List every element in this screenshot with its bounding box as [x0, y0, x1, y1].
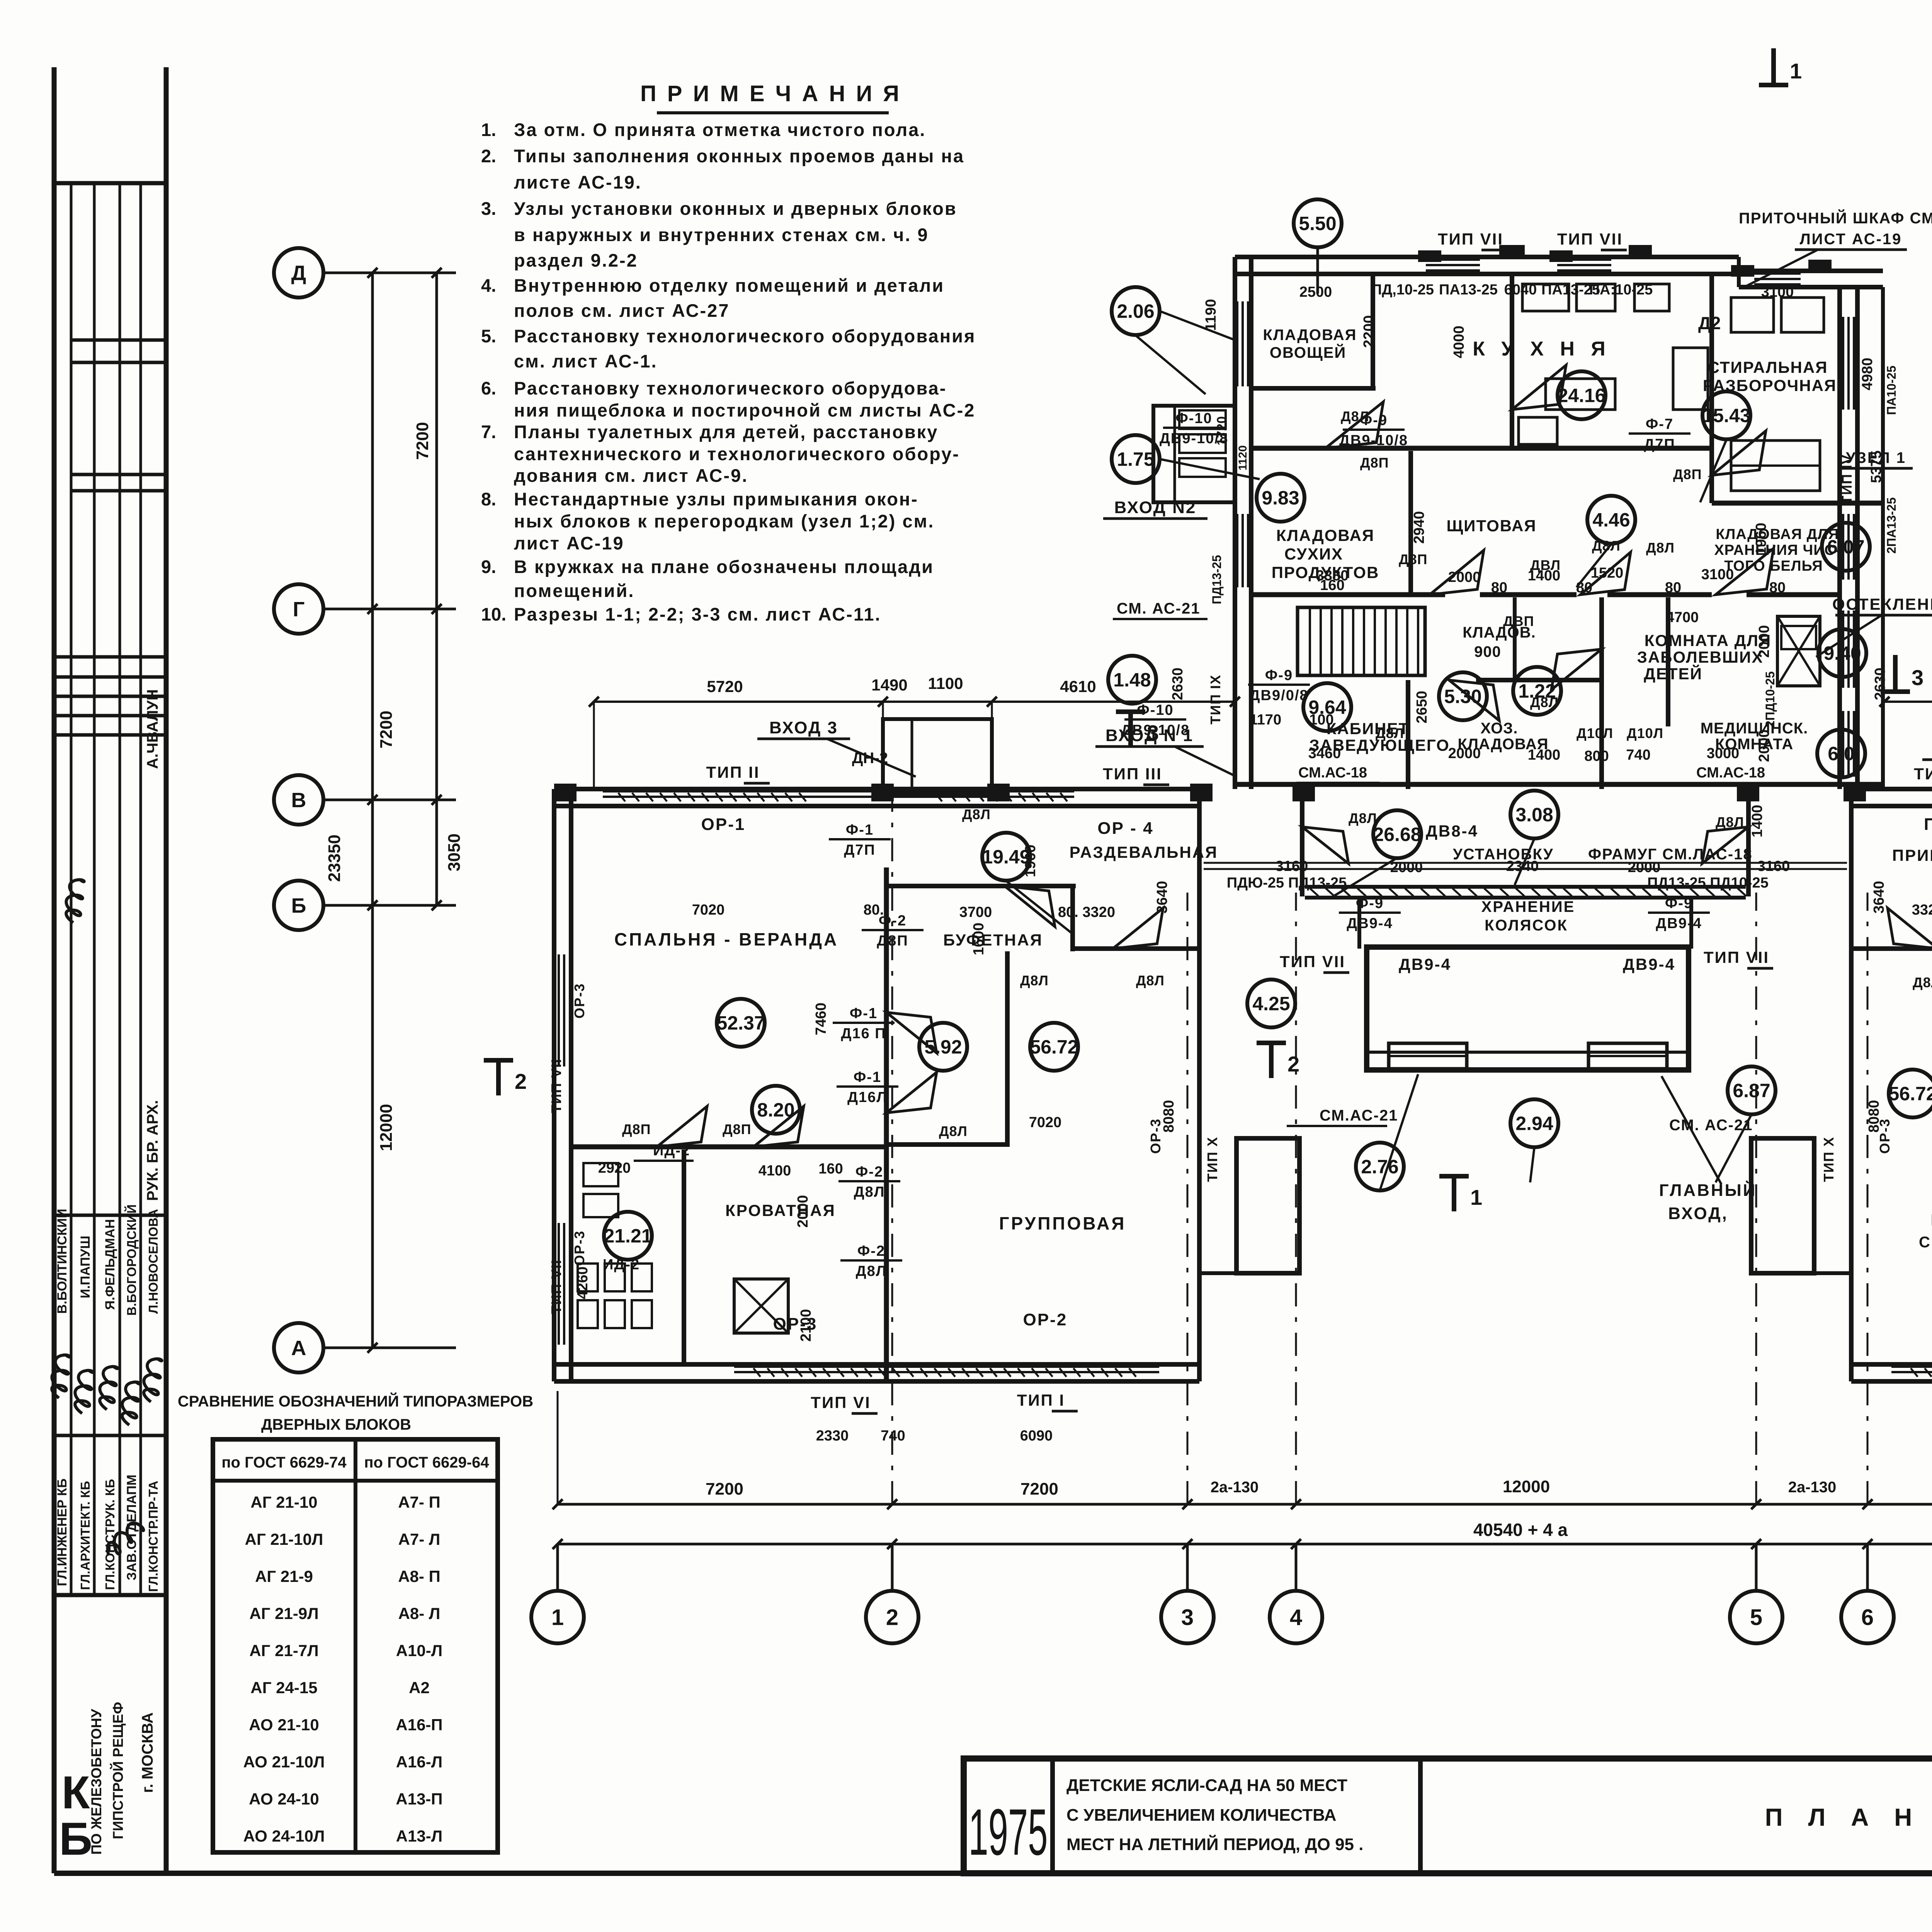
title block: [964, 1759, 1932, 1873]
svg-text:СМ.АС-18: СМ.АС-18: [1696, 765, 1765, 781]
svg-text:Д16Л: Д16Л: [847, 1089, 888, 1105]
svg-text:Д8Л: Д8Л: [1020, 973, 1049, 988]
svg-text:2650: 2650: [1414, 691, 1430, 724]
svg-text:А8- П: А8- П: [398, 1567, 440, 1585]
svg-text:1120: 1120: [1236, 445, 1249, 470]
svg-text:5.30: 5.30: [1444, 686, 1481, 707]
svg-text:1960: 1960: [1753, 523, 1769, 556]
svg-text:ГЛ.ИНЖЕНЕР КБ: ГЛ.ИНЖЕНЕР КБ: [55, 1478, 70, 1586]
stairs: [1298, 607, 1425, 675]
svg-text:3: 3: [1147, 721, 1159, 745]
svg-text:РАЗДЕВАЛЬНАЯ: РАЗДЕВАЛЬНАЯ: [1070, 843, 1218, 861]
svg-text:ДЕТЕЙ: ДЕТЕЙ: [1644, 664, 1702, 683]
svg-text:А16-П: А16-П: [396, 1716, 442, 1734]
svg-text:4980: 4980: [1859, 358, 1876, 391]
svg-text:2630: 2630: [1872, 668, 1888, 701]
svg-text:7.: 7.: [481, 422, 496, 442]
svg-text:4700: 4700: [1666, 609, 1699, 626]
svg-text:4.: 4.: [481, 275, 496, 296]
upper block outer walls: [1235, 255, 1739, 259]
svg-text:Расстановку технологического о: Расстановку технологического оборудова-: [514, 378, 947, 398]
svg-text:ДВ9-4: ДВ9-4: [1347, 915, 1393, 932]
svg-text:А7- Л: А7- Л: [398, 1530, 440, 1548]
svg-text:3: 3: [1912, 665, 1923, 690]
svg-text:С УВЕЛИЧЕНИЕМ КОЛИЧЕСТВА: С УВЕЛИЧЕНИЕМ КОЛИЧЕСТВА: [1066, 1806, 1337, 1825]
svg-text:Д8Л: Д8Л: [962, 806, 991, 822]
svg-text:АГ 21-7Л: АГ 21-7Л: [249, 1641, 318, 1660]
svg-text:4.46: 4.46: [1592, 509, 1630, 531]
svg-text:2500: 2500: [1299, 284, 1332, 300]
svg-text:СМ. АС-21: СМ. АС-21: [1669, 1117, 1753, 1134]
svg-text:Д8П: Д8П: [1673, 466, 1702, 482]
svg-text:ТИП VII: ТИП VII: [1280, 952, 1345, 971]
main porch: [1367, 947, 1689, 1070]
svg-text:ОР-2: ОР-2: [1023, 1310, 1068, 1329]
svg-text:Д8П: Д8П: [723, 1121, 752, 1137]
svg-text:А8- Л: А8- Л: [398, 1604, 440, 1622]
svg-text:10.: 10.: [481, 604, 506, 624]
svg-text:ТИП III: ТИП III: [1914, 765, 1932, 783]
svg-text:2000: 2000: [795, 1195, 811, 1228]
svg-text:3320: 3320: [1912, 902, 1932, 918]
wing sanitary screens: [583, 1163, 618, 1186]
svg-text:2.06: 2.06: [1117, 301, 1154, 322]
svg-text:2000: 2000: [1628, 859, 1661, 876]
svg-text:1: 1: [1790, 59, 1802, 83]
svg-text:2330: 2330: [816, 1428, 849, 1444]
svg-text:К У Х Н Я: К У Х Н Я: [1473, 338, 1611, 360]
svg-text:ВХОД,: ВХОД,: [1668, 1204, 1728, 1223]
svg-text:А.ЧВАЛУН: А.ЧВАЛУН: [144, 689, 161, 769]
svg-text:П Р И М Е Ч А Н И Я: П Р И М Е Ч А Н И Я: [640, 81, 901, 106]
svg-text:2.94: 2.94: [1515, 1113, 1553, 1134]
svg-text:А16-Л: А16-Л: [396, 1753, 443, 1771]
svg-text:80: 80: [1665, 580, 1681, 596]
svg-text:АГ 24-15: АГ 24-15: [250, 1679, 317, 1697]
svg-text:7200: 7200: [706, 1480, 743, 1498]
svg-text:Расстановку технологического о: Расстановку технологического оборудовани…: [514, 326, 976, 346]
svg-text:СРАВНЕНИЕ ОБОЗНАЧЕНИЙ ТИПОРАЗМ: СРАВНЕНИЕ ОБОЗНАЧЕНИЙ ТИПОРАЗМЕРОВ: [178, 1392, 533, 1410]
svg-text:см. лист АС-1.: см. лист АС-1.: [514, 351, 658, 371]
svg-text:2000: 2000: [1756, 730, 1772, 762]
svg-text:1: 1: [1470, 1185, 1482, 1209]
svg-text:Д7П: Д7П: [844, 842, 876, 858]
svg-text:7020: 7020: [1029, 1114, 1062, 1131]
svg-text:Б: Б: [59, 1813, 92, 1865]
svg-text:1720: 1720: [1214, 416, 1229, 446]
entry leaders: [827, 739, 916, 777]
svg-text:4260: 4260: [575, 1267, 591, 1299]
central entrance walls: [1300, 789, 1304, 896]
svg-text:ДЕТСКИЕ ЯСЛИ-САД НА 50 МЕСТ: ДЕТСКИЕ ЯСЛИ-САД НА 50 МЕСТ: [1066, 1776, 1347, 1795]
svg-text:Ф-10: Ф-10: [1175, 410, 1212, 427]
svg-text:ТИП VI: ТИП VI: [811, 1393, 871, 1412]
svg-text:2.76: 2.76: [1361, 1156, 1398, 1178]
wall junction blobs: [871, 784, 894, 801]
cribs: [734, 1279, 788, 1333]
svg-text:Д8Л: Д8Л: [856, 1263, 887, 1279]
svg-text:1400: 1400: [1749, 805, 1765, 838]
svg-text:7200: 7200: [1020, 1480, 1058, 1498]
svg-text:ния пищеблока и постирочной см: ния пищеблока и постирочной см листы АС-…: [514, 400, 975, 420]
svg-text:ДВЕРНЫХ БЛОКОВ: ДВЕРНЫХ БЛОКОВ: [261, 1416, 411, 1433]
svg-text:Л.НОВОСЕЛОВА: Л.НОВОСЕЛОВА: [146, 1209, 160, 1314]
svg-text:2000: 2000: [1390, 859, 1423, 876]
svg-text:РУК. БР. АРХ.: РУК. БР. АРХ.: [144, 1100, 161, 1201]
svg-text:80: 80: [1769, 580, 1786, 596]
bottom dimension chain: [558, 1503, 1932, 1506]
upper block top windows: [1426, 259, 1480, 261]
svg-text:12000: 12000: [377, 1104, 396, 1151]
svg-text:ПРИЕМНАЯ: ПРИЕМНАЯ: [1892, 846, 1932, 864]
svg-text:2: 2: [1287, 1052, 1299, 1076]
svg-text:160: 160: [1320, 577, 1344, 594]
svg-text:7200: 7200: [413, 422, 432, 460]
svg-text:740: 740: [1626, 747, 1650, 763]
svg-text:3000: 3000: [1707, 745, 1740, 762]
svg-text:1400: 1400: [1528, 568, 1561, 584]
svg-text:4100: 4100: [759, 1163, 791, 1179]
dim line row Д: [594, 701, 1235, 703]
svg-text:1190: 1190: [1203, 299, 1219, 331]
svg-text:ДВ9-4: ДВ9-4: [1399, 955, 1451, 973]
svg-text:Д10Л: Д10Л: [1627, 725, 1663, 741]
svg-text:СМ.АС-21: СМ.АС-21: [1320, 1107, 1398, 1124]
svg-text:ТИП VII: ТИП VII: [548, 1058, 564, 1113]
svg-text:ТИП X: ТИП X: [1204, 1136, 1220, 1182]
svg-text:1170: 1170: [1250, 712, 1281, 728]
svg-text:23350: 23350: [325, 835, 344, 882]
svg-text:А2: А2: [409, 1679, 430, 1697]
svg-text:листе АС-19.: листе АС-19.: [514, 172, 642, 192]
svg-text:Д8П: Д8П: [622, 1121, 651, 1137]
svg-text:ДВ8-4: ДВ8-4: [1426, 822, 1478, 840]
upper block internal walls: [1251, 446, 1712, 451]
svg-text:6.87: 6.87: [1733, 1080, 1770, 1102]
svg-text:8.: 8.: [481, 489, 496, 509]
svg-text:ИД-2: ИД-2: [603, 1257, 640, 1273]
side tambours: [1236, 1138, 1299, 1273]
svg-text:Планы туалетных для детей, рас: Планы туалетных для детей, расстановку: [514, 422, 938, 442]
svg-text:1490: 1490: [871, 676, 907, 694]
svg-text:Д16 П: Д16 П: [841, 1026, 886, 1042]
svg-text:АГ 21-10Л: АГ 21-10Л: [245, 1530, 323, 1548]
svg-text:ХРАНЕНИЯ ЧИС-: ХРАНЕНИЯ ЧИС-: [1714, 542, 1840, 558]
svg-text:Я.ФЕЛЬДМАН: Я.ФЕЛЬДМАН: [103, 1219, 117, 1310]
row axis circles: [274, 248, 323, 298]
svg-text:СПАЛЬНЯ - ВЕРАНДА: СПАЛЬНЯ - ВЕРАНДА: [614, 929, 839, 949]
svg-text:ТИП IX: ТИП IX: [1207, 674, 1223, 724]
svg-text:полов см. лист АС-27: полов см. лист АС-27: [514, 300, 730, 321]
svg-text:Б: Б: [291, 894, 306, 917]
svg-text:ДВП: ДВП: [1503, 613, 1534, 629]
svg-text:Внутреннюю отделку помещений и: Внутреннюю отделку помещений и детали: [514, 275, 944, 296]
svg-text:3050: 3050: [445, 833, 464, 871]
laundry equipment: [1731, 298, 1774, 332]
svg-text:ТИП III: ТИП III: [1103, 765, 1162, 783]
svg-text:Д8Л: Д8Л: [1913, 975, 1932, 990]
svg-text:2000: 2000: [1448, 745, 1481, 762]
svg-text:ПР-4: ПР-4: [1924, 815, 1932, 834]
svg-text:ТОГО БЕЛЬЯ: ТОГО БЕЛЬЯ: [1724, 558, 1823, 574]
svg-text:ВХОД 3: ВХОД 3: [769, 718, 838, 737]
svg-text:ПД,10-25: ПД,10-25: [1371, 282, 1434, 298]
svg-text:8080: 8080: [1866, 1100, 1882, 1133]
svg-text:ПДЮ-25 ПД13-25: ПДЮ-25 ПД13-25: [1227, 875, 1347, 891]
svg-text:7200: 7200: [377, 711, 396, 748]
svg-text:ТИП VII: ТИП VII: [1438, 230, 1503, 248]
svg-text:Разрезы 1-1; 2-2; 3-3 см. лист: Разрезы 1-1; 2-2; 3-3 см. лист АС-11.: [514, 604, 881, 624]
svg-text:Ф-1: Ф-1: [854, 1069, 881, 1085]
svg-text:СТИРАЛЬНАЯ: СТИРАЛЬНАЯ: [1708, 358, 1828, 376]
svg-text:Д8П: Д8П: [1399, 551, 1428, 567]
upper block bottom wall: [1235, 782, 1883, 787]
left wing walls: [554, 787, 1199, 791]
svg-text:26.68: 26.68: [1373, 824, 1421, 845]
svg-text:9.: 9.: [481, 556, 496, 577]
svg-text:ХОЗ.: ХОЗ.: [1481, 720, 1518, 737]
svg-text:ОР-3: ОР-3: [571, 983, 587, 1019]
svg-text:ЛИСТ АС-19: ЛИСТ АС-19: [1800, 231, 1902, 248]
svg-text:А10-Л: А10-Л: [396, 1641, 443, 1660]
svg-text:ТИП II: ТИП II: [706, 763, 760, 781]
entry porch ВХОД 3: [883, 719, 992, 794]
svg-text:Д8П: Д8П: [1360, 455, 1389, 471]
svg-text:Д8Л: Д8Л: [854, 1184, 885, 1200]
column axis circles: [531, 1591, 584, 1643]
svg-text:Д2: Д2: [1698, 313, 1721, 333]
svg-text:3160: 3160: [1757, 858, 1790, 874]
svg-text:ВХОД N2: ВХОД N2: [1114, 498, 1197, 517]
svg-text:ЩИТОВАЯ: ЩИТОВАЯ: [1446, 517, 1536, 535]
svg-text:ПА10-25: ПА10-25: [1884, 366, 1898, 415]
svg-text:ОР-1: ОР-1: [701, 815, 746, 834]
entrance N2 shelving: [1179, 410, 1226, 429]
svg-text:В кружках на плане обозначены: В кружках на плане обозначены площади: [514, 556, 934, 577]
svg-text:ТИП I: ТИП I: [1017, 1391, 1065, 1409]
svg-text:6.0: 6.0: [1828, 743, 1855, 765]
svg-text:4: 4: [1290, 1605, 1302, 1630]
svg-text:ОР - 4: ОР - 4: [1097, 819, 1153, 838]
svg-text:Ф-1: Ф-1: [850, 1005, 878, 1022]
svg-text:КЛАДОВАЯ: КЛАДОВАЯ: [1276, 526, 1374, 544]
svg-text:А13-П: А13-П: [396, 1790, 442, 1808]
svg-text:2ПА13-25: 2ПА13-25: [1884, 497, 1898, 554]
svg-text:ных блоков к перегородкам (узе: ных блоков к перегородкам (узел 1;2) см.: [514, 511, 934, 531]
svg-text:Д8Л: Д8Л: [1646, 540, 1675, 556]
svg-text:1975: 1975: [969, 1796, 1048, 1869]
entrance porch ВХОД N2: [1153, 406, 1235, 502]
svg-text:А13-Л: А13-Л: [396, 1827, 443, 1845]
svg-text:2940: 2940: [1411, 511, 1427, 544]
svg-text:ТИП IV: ТИП IV: [1839, 454, 1855, 504]
svg-text:5720: 5720: [707, 677, 743, 696]
svg-text:21.21: 21.21: [604, 1225, 652, 1247]
svg-text:2.: 2.: [481, 146, 496, 166]
svg-text:4610: 4610: [1060, 677, 1096, 696]
svg-text:Д8Л: Д8Л: [1349, 810, 1377, 826]
svg-text:ПА13-25: ПА13-25: [1439, 282, 1498, 298]
right wing walls: [1851, 787, 1932, 791]
svg-text:80.: 80.: [864, 902, 884, 918]
left dimension chain: [371, 273, 374, 1348]
sheet border frame: [52, 67, 57, 1873]
svg-text:И.ПАПУШ: И.ПАПУШ: [78, 1236, 93, 1298]
svg-text:3640: 3640: [1871, 881, 1887, 914]
svg-text:2100: 2100: [798, 1309, 814, 1342]
svg-text:ТИП VII: ТИП VII: [1557, 230, 1623, 248]
svg-text:БУФЕТНАЯ: БУФЕТНАЯ: [943, 931, 1043, 949]
svg-text:Д7П: Д7П: [1644, 436, 1675, 452]
svg-text:24.16: 24.16: [1557, 385, 1605, 406]
svg-text:ГЛ.АРХИТЕКТ. КБ: ГЛ.АРХИТЕКТ. КБ: [78, 1481, 92, 1590]
svg-text:АО 21-10Л: АО 21-10Л: [243, 1753, 325, 1771]
svg-text:Типы заполнения оконных проемо: Типы заполнения оконных проемов даны на: [514, 146, 964, 166]
svg-text:П Л А Н: П Л А Н: [1765, 1803, 1922, 1831]
svg-text:1400: 1400: [1528, 747, 1561, 763]
svg-text:ТИП VII: ТИП VII: [548, 1259, 564, 1314]
area circles: [1294, 199, 1342, 247]
svg-text:56.72: 56.72: [1888, 1083, 1932, 1105]
svg-text:3160: 3160: [1276, 858, 1308, 874]
svg-text:ТИП X: ТИП X: [1821, 1136, 1837, 1182]
svg-text:ПО ЖЕЛЕЗОБЕТОНУ: ПО ЖЕЛЕЗОБЕТОНУ: [88, 1709, 104, 1855]
svg-text:Ф-2: Ф-2: [855, 1164, 883, 1180]
radiator hatch under windows: [618, 793, 625, 801]
svg-text:Ф-9: Ф-9: [1356, 895, 1384, 912]
svg-text:80. 3320: 80. 3320: [1058, 904, 1115, 920]
svg-text:ИГРАЛЬНАЯ-: ИГРАЛЬНАЯ-: [1931, 1211, 1932, 1230]
kitchen equipment: [1522, 284, 1569, 311]
svg-text:6.: 6.: [481, 378, 496, 398]
svg-text:Д8Л: Д8Л: [939, 1123, 968, 1139]
door leaves: [1325, 402, 1383, 448]
svg-text:ГЛАВНЫЙ: ГЛАВНЫЙ: [1659, 1180, 1757, 1200]
svg-text:ДВ9/0/8: ДВ9/0/8: [1249, 687, 1308, 704]
svg-text:АО 24-10: АО 24-10: [249, 1790, 319, 1808]
svg-text:5375: 5375: [1868, 451, 1884, 483]
svg-text:1: 1: [551, 1605, 564, 1630]
svg-text:Г: Г: [293, 598, 305, 621]
svg-text:3100: 3100: [1701, 566, 1734, 583]
svg-text:АГ 21-9: АГ 21-9: [255, 1567, 313, 1585]
svg-text:1960: 1960: [1022, 845, 1039, 878]
svg-text:3.: 3.: [481, 198, 496, 219]
svg-text:За отм. О принята отметка чист: За отм. О принята отметка чистого пола.: [514, 119, 926, 140]
svg-text:Д10Л: Д10Л: [1577, 725, 1613, 741]
svg-text:помещений.: помещений.: [514, 580, 634, 601]
svg-text:по ГОСТ 6629-64: по ГОСТ 6629-64: [364, 1454, 489, 1471]
svg-text:ОВОЩЕЙ: ОВОЩЕЙ: [1270, 344, 1346, 361]
svg-text:ГРУППОВАЯ: ГРУППОВАЯ: [999, 1213, 1126, 1233]
остекленная перегородка leader: [1816, 615, 1882, 657]
upper block window bands: [1842, 317, 1844, 410]
sick room furniture: [1777, 616, 1820, 686]
svg-text:2: 2: [515, 1069, 527, 1094]
svg-text:Д8П: Д8П: [877, 933, 908, 949]
svg-text:КРОВАТНАЯ: КРОВАТНАЯ: [725, 1201, 836, 1219]
svg-text:4000: 4000: [1451, 326, 1467, 359]
svg-text:СМ. АС-21: СМ. АС-21: [1117, 600, 1201, 617]
svg-text:АО 21-10: АО 21-10: [249, 1716, 319, 1734]
svg-text:2630: 2630: [1170, 668, 1186, 701]
svg-text:2000: 2000: [1756, 625, 1772, 658]
svg-text:раздел 9.2-2: раздел 9.2-2: [514, 250, 638, 270]
svg-text:г. МОСКВА: г. МОСКВА: [139, 1713, 156, 1793]
svg-text:РАЗБОРОЧНАЯ: РАЗБОРОЧНАЯ: [1703, 376, 1837, 395]
svg-text:3460: 3460: [1308, 745, 1341, 762]
svg-text:160: 160: [818, 1161, 843, 1177]
svg-text:Ф-1: Ф-1: [846, 822, 874, 838]
svg-text:КЛАДОВАЯ: КЛАДОВАЯ: [1263, 327, 1357, 344]
svg-text:5: 5: [1750, 1605, 1762, 1630]
svg-text:ПРИТОЧНЫЙ ШКАФ СМ: ПРИТОЧНЫЙ ШКАФ СМ: [1739, 209, 1932, 227]
svg-text:лист АС-19: лист АС-19: [514, 533, 624, 553]
svg-text:ФРАМУГ СМ.ЛАС-18: ФРАМУГ СМ.ЛАС-18: [1588, 846, 1753, 863]
svg-text:5.: 5.: [481, 326, 496, 346]
svg-text:15.43: 15.43: [1702, 405, 1750, 427]
svg-text:по ГОСТ 6629-74: по ГОСТ 6629-74: [221, 1454, 347, 1471]
svg-text:1.: 1.: [481, 119, 496, 140]
svg-text:52.37: 52.37: [716, 1012, 765, 1034]
svg-text:900: 900: [1474, 643, 1501, 660]
svg-text:Д: Д: [291, 262, 306, 285]
svg-text:ТИП VII: ТИП VII: [1704, 948, 1769, 966]
svg-text:СУХИХ: СУХИХ: [1284, 545, 1343, 563]
svg-text:ГИПСТРОЙ РЕЩЕФ: ГИПСТРОЙ РЕЩЕФ: [110, 1702, 126, 1839]
svg-text:К: К: [61, 1767, 90, 1818]
svg-text:Д8Л: Д8Л: [1136, 973, 1165, 988]
svg-text:Нестандартные узлы примыкания: Нестандартные узлы примыкания окон-: [514, 489, 918, 509]
svg-text:АГ 21-9Л: АГ 21-9Л: [249, 1604, 318, 1622]
svg-text:ГЛ.КОНСТР.ПР-ТА: ГЛ.КОНСТР.ПР-ТА: [146, 1481, 160, 1592]
svg-text:2ПД10-25: 2ПД10-25: [1763, 671, 1777, 727]
svg-text:4.25: 4.25: [1252, 993, 1290, 1015]
svg-text:Д8Л: Д8Л: [1530, 694, 1559, 710]
svg-text:1100: 1100: [928, 674, 963, 692]
svg-text:2: 2: [886, 1605, 898, 1630]
svg-text:Д8Л: Д8Л: [1376, 725, 1404, 741]
svg-text:12000: 12000: [1503, 1477, 1550, 1496]
svg-text:7020: 7020: [692, 902, 725, 918]
svg-text:В.БОЛТИНСКИЙ: В.БОЛТИНСКИЙ: [54, 1209, 70, 1314]
svg-text:дования см. лист АС-9.: дования см. лист АС-9.: [514, 465, 748, 486]
svg-text:1.75: 1.75: [1117, 449, 1154, 470]
svg-text:Ф-9: Ф-9: [1665, 895, 1693, 912]
svg-text:2000: 2000: [1448, 569, 1481, 585]
svg-text:9.83: 9.83: [1262, 487, 1299, 509]
svg-text:56.72: 56.72: [1030, 1036, 1078, 1058]
svg-text:С Т О Л О В А Я: С Т О Л О В А Я: [1919, 1234, 1932, 1251]
svg-text:80: 80: [1491, 580, 1507, 596]
svg-text:А: А: [291, 1337, 306, 1360]
svg-text:КОМНАТА ДЛЯ: КОМНАТА ДЛЯ: [1645, 631, 1771, 650]
svg-text:ПД13-25 ПД10-25: ПД13-25 ПД10-25: [1647, 875, 1769, 891]
svg-text:40540 + 4 а: 40540 + 4 а: [1473, 1520, 1568, 1540]
left stamp strip: [70, 183, 73, 1595]
svg-text:1.48: 1.48: [1113, 669, 1151, 691]
svg-text:СМ.АС-18: СМ.АС-18: [1298, 765, 1367, 781]
svg-text:3.08: 3.08: [1515, 804, 1553, 826]
svg-text:ПД13-25: ПД13-25: [1210, 555, 1224, 604]
svg-text:Ф-9: Ф-9: [1265, 667, 1293, 684]
svg-text:2а-130: 2а-130: [1211, 1479, 1259, 1496]
svg-text:6090: 6090: [1020, 1428, 1053, 1444]
svg-text:1600: 1600: [971, 923, 987, 956]
svg-text:в наружных и внутренних стенах: в наружных и внутренних стенах см. ч. 9: [514, 224, 929, 245]
svg-text:ЗАБОЛЕВШИХ: ЗАБОЛЕВШИХ: [1637, 648, 1764, 666]
svg-text:800: 800: [1584, 748, 1609, 764]
